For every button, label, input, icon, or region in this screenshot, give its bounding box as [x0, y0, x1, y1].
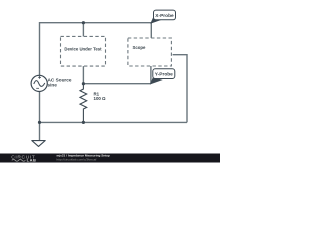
- svg-text:Y-Probe: Y-Probe: [155, 72, 173, 78]
- wire X-probe drop into scope box: [150, 23, 152, 38]
- annotation box Scope: [128, 38, 171, 66]
- AC source minus: [36, 87, 39, 89]
- junction dot ground tee: [38, 121, 41, 124]
- AC source plus: [38, 76, 41, 79]
- wire scope right to ground net: [173, 55, 187, 123]
- svg-text:Scope: Scope: [133, 45, 147, 50]
- flag Y-Probe wedge: [150, 77, 161, 84]
- AC source V1 circle: [31, 75, 47, 91]
- svg-text:100 Ω: 100 Ω: [94, 96, 107, 101]
- resistor R1 zigzag: [80, 84, 87, 122]
- annotation box Device Under Test: [61, 36, 106, 66]
- flag Y-Probe box: [153, 69, 175, 79]
- flag X-Probe wedge: [151, 17, 163, 24]
- wire junction A to DUT top: [82, 23, 84, 37]
- wire bottom ground net: [40, 121, 188, 123]
- wire AC source bottom to ground: [39, 92, 41, 141]
- wire node B horizontal to Y-probe: [83, 83, 150, 85]
- AC source sine: [34, 81, 45, 87]
- ground: [32, 141, 45, 147]
- junction dot node A: [82, 21, 85, 24]
- junction dot node B: [82, 82, 85, 85]
- wire top horizontal node A: [40, 23, 152, 76]
- flag X-Probe box: [154, 10, 176, 20]
- wire DUT bottom to node B: [82, 66, 84, 84]
- footer logo squiggle: [12, 159, 26, 161]
- svg-text:Device Under Test: Device Under Test: [64, 46, 102, 51]
- junction dot bottom resistor: [82, 121, 85, 124]
- svg-text:http://circuitlab.com/c/3kmcaf: http://circuitlab.com/c/3kmcaf: [57, 157, 97, 161]
- svg-text:sine: sine: [48, 83, 58, 88]
- wire Y-probe rise into scope box: [150, 66, 152, 84]
- svg-text:LAB: LAB: [27, 158, 37, 163]
- footer bar: [0, 154, 220, 163]
- svg-text:X-Probe: X-Probe: [155, 13, 174, 19]
